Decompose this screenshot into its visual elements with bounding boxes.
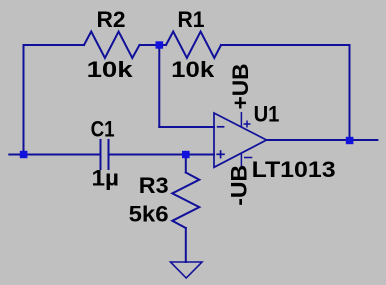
- wire mid rail to op-amp plus input: [109, 154, 215, 156]
- resistor R2: [84, 32, 140, 59]
- wire mid rail input segment: [9, 154, 100, 156]
- svg-text:R3: R3: [139, 173, 169, 198]
- wire right vertical drop: [349, 45, 351, 140]
- svg-text:R1: R1: [178, 7, 205, 32]
- plus sign power pin: [244, 121, 251, 128]
- wire R3 bottom lead: [185, 228, 187, 262]
- pin +UB stub: [240, 112, 242, 127]
- wire top rail right lead: [221, 44, 350, 46]
- svg-text:LT1013: LT1013: [252, 157, 336, 182]
- wire feedback vertical: [158, 45, 160, 127]
- svg-text:+UB: +UB: [228, 63, 253, 109]
- wire R3 top lead: [185, 155, 187, 173]
- svg-text:10k: 10k: [87, 57, 134, 82]
- ground: [171, 262, 203, 278]
- minus sign inverting input: [217, 126, 225, 128]
- wire feedback horizontal to minus input: [159, 126, 214, 128]
- plus sign non-inverting input: [216, 150, 224, 158]
- wire top rail left lead: [24, 44, 85, 46]
- capacitor C1: [101, 140, 109, 169]
- node junction R3 top: [182, 151, 190, 158]
- pin -UB stub: [240, 154, 242, 168]
- node junction output: [346, 137, 354, 144]
- svg-text:10k: 10k: [171, 57, 215, 82]
- svg-text:5k6: 5k6: [129, 202, 169, 227]
- wire left vertical drop: [23, 45, 25, 155]
- node junction R2/R1 feedback: [156, 41, 164, 48]
- resistor R1: [166, 32, 221, 59]
- wire op-amp output: [267, 139, 378, 141]
- svg-text:R2: R2: [97, 7, 126, 32]
- resistor R3: [172, 173, 199, 229]
- op-amp U1: [214, 112, 267, 168]
- node junction left input: [20, 151, 28, 158]
- svg-text:-UB: -UB: [227, 165, 252, 206]
- svg-text:1µ: 1µ: [92, 166, 120, 191]
- minus sign power pin: [244, 157, 252, 159]
- svg-text:C1: C1: [91, 117, 115, 142]
- svg-text:U1: U1: [254, 102, 280, 127]
- wire top rail middle lead: [140, 44, 167, 46]
